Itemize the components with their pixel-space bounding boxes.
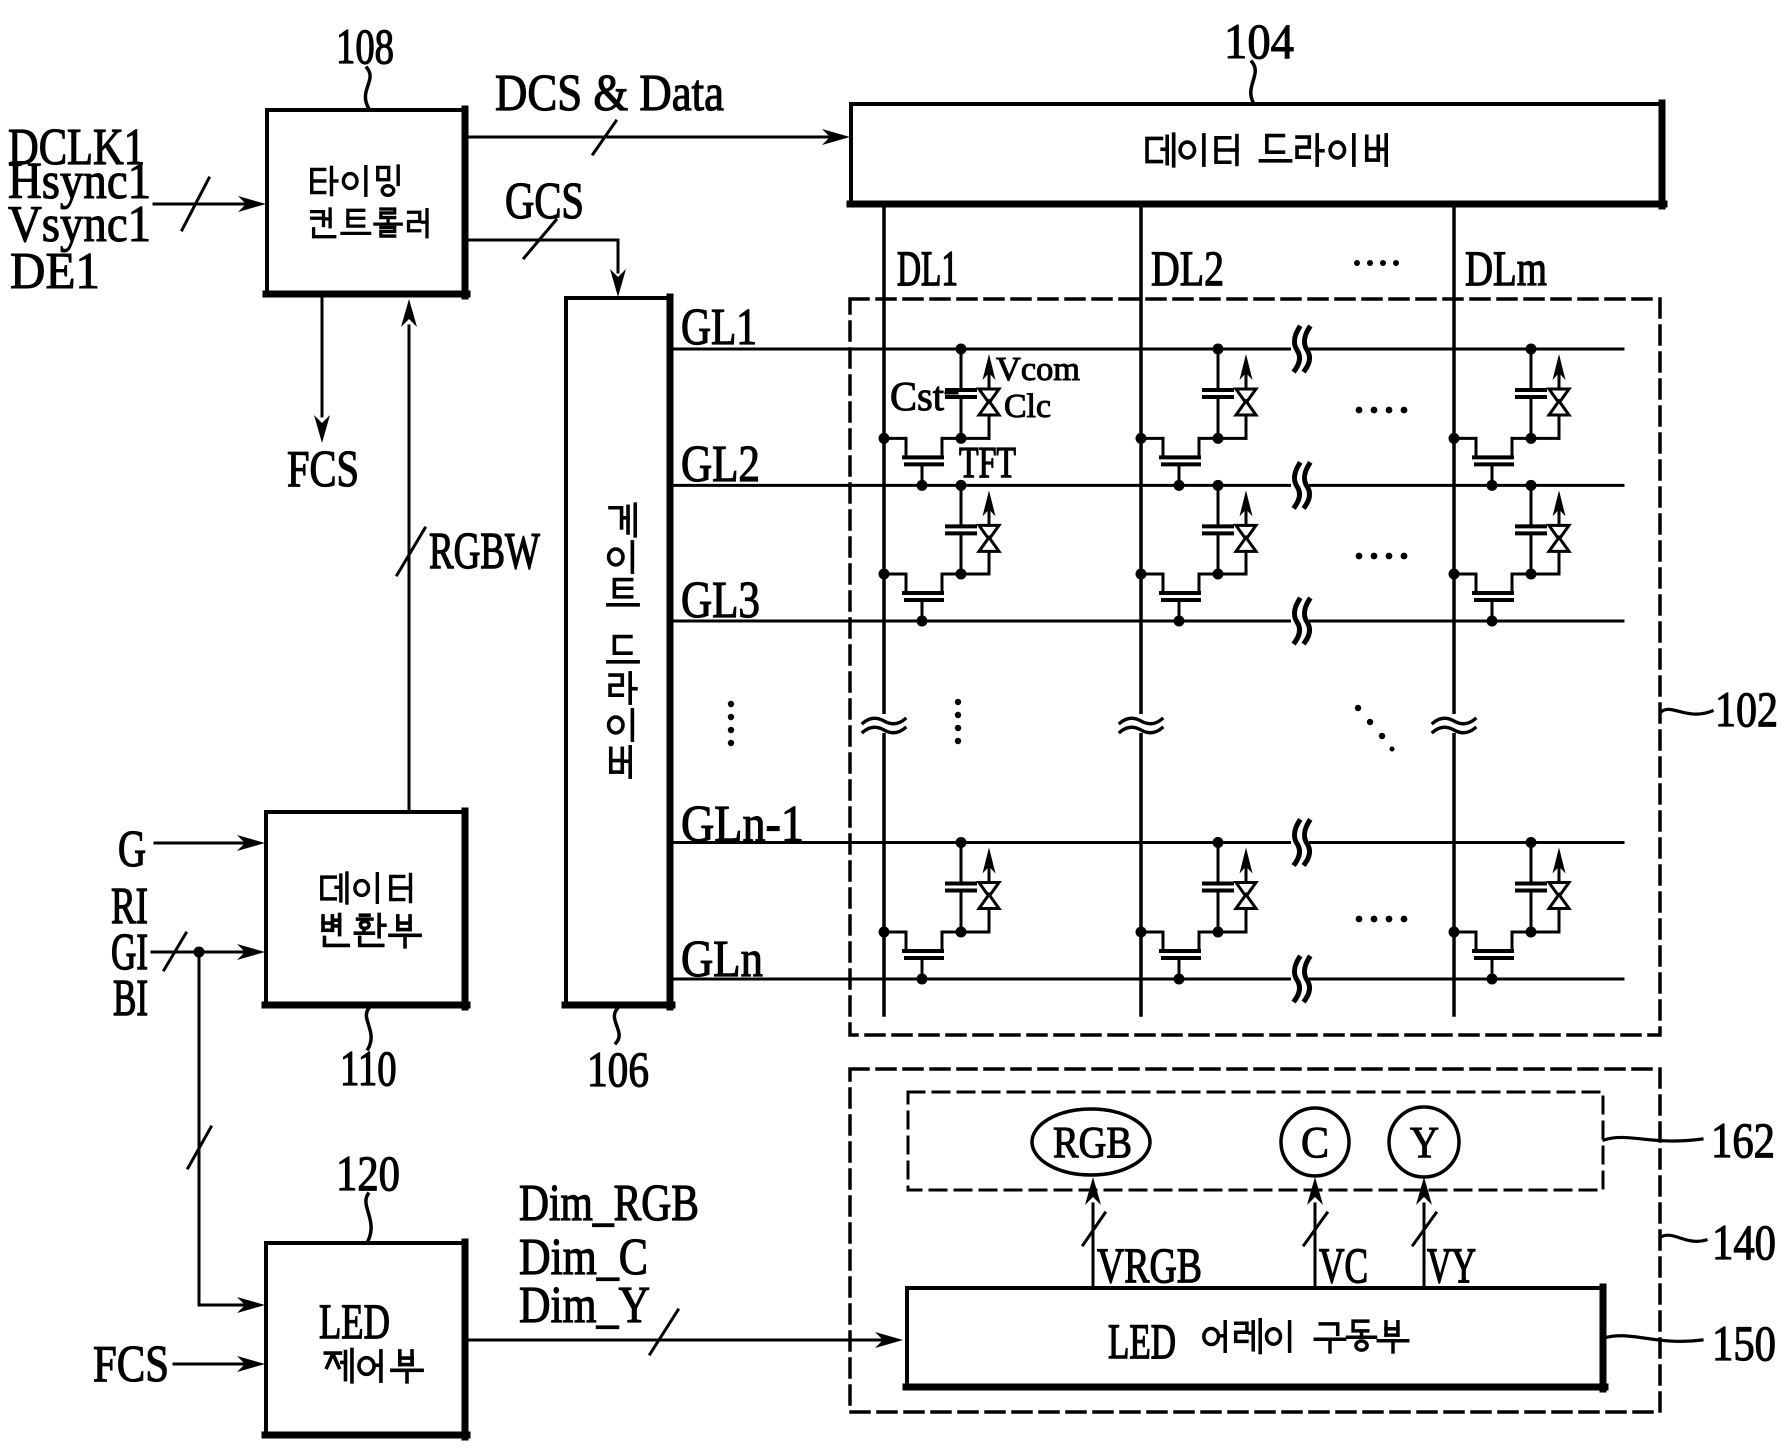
pixel TFT Q9	[1454, 932, 1531, 979]
TFT source junction on DL	[1449, 927, 1460, 938]
storage capacitor Cst8	[1204, 843, 1232, 933]
labels GL1 GL2 GL3 GLn-1 GLn	[681, 299, 804, 988]
TFT gate junction on GL	[917, 480, 928, 491]
Cst junction on gate line	[1213, 480, 1224, 491]
wire from GI node to LED controller	[188, 952, 265, 1313]
pixel node junction	[1213, 433, 1224, 444]
pixel TFT Q8	[1141, 932, 1218, 979]
pixel TFT Q4	[884, 574, 961, 621]
label 106	[587, 1041, 649, 1097]
label 104	[1224, 15, 1294, 70]
svg-text:GLn: GLn	[681, 931, 763, 988]
storage capacitor Cst4	[947, 485, 975, 574]
data driver U104 box	[850, 103, 1664, 206]
pixel TFT Q6	[1454, 574, 1531, 621]
label DCS & Data	[495, 64, 724, 122]
svg-text:GL3: GL3	[681, 571, 760, 629]
svg-text:Vcom: Vcom	[996, 351, 1080, 388]
TFT gate junction on GL	[1487, 616, 1498, 627]
label FCS	[287, 440, 359, 498]
data line DL2	[1139, 204, 1143, 1015]
svg-text:DL2: DL2	[1151, 241, 1224, 296]
LED array 162 dashed outline	[908, 1092, 1603, 1190]
label 162	[1711, 1114, 1775, 1169]
pixel TFT Q3	[1454, 438, 1531, 485]
svg-text:C: C	[1301, 1119, 1329, 1167]
leader squiggle to 162	[1604, 1137, 1702, 1141]
svg-text:RGB: RGB	[1053, 1118, 1132, 1167]
wire RGBW	[397, 299, 425, 812]
liquid crystal capacitor Clc1	[961, 389, 999, 438]
gate line GL2	[670, 484, 1623, 487]
wire GCS	[466, 220, 626, 297]
gate line GLn-1	[670, 841, 1623, 844]
wire input bus into timing controller	[154, 178, 266, 230]
storage capacitor Cst6	[1517, 485, 1545, 574]
gate line GL3	[670, 620, 1623, 623]
TFT gate junction on GL	[917, 616, 928, 627]
label 102	[1715, 682, 1778, 737]
leader squiggle to 140	[1661, 1235, 1706, 1241]
svg-text:GL2: GL2	[681, 435, 760, 493]
storage capacitor Cst7	[947, 843, 975, 933]
TFT gate junction on GL	[1487, 480, 1498, 491]
svg-text:FCS: FCS	[287, 440, 359, 498]
svg-text:VY: VY	[1427, 1239, 1476, 1294]
display panel 102 dashed outline	[850, 299, 1660, 1035]
label Vcom	[996, 351, 1080, 388]
svg-text:RGBW: RGBW	[429, 522, 540, 580]
label VRGB	[1097, 1238, 1202, 1293]
timing controller U108 box	[266, 109, 467, 296]
svg-text:VRGB: VRGB	[1097, 1238, 1202, 1293]
gate line break mark at y=349	[1291, 328, 1309, 370]
wire FCS into LED controller	[174, 1356, 265, 1372]
svg-text:102: 102	[1715, 682, 1778, 737]
svg-text:150: 150	[1712, 1317, 1776, 1372]
pixel node junction	[1526, 433, 1537, 444]
liquid crystal capacitor Clc9	[1531, 883, 1569, 933]
pixel TFT Q7	[884, 932, 961, 979]
gate line GL1	[670, 348, 1623, 351]
wire DCS & Data	[466, 121, 850, 154]
wire VC	[1304, 1177, 1327, 1288]
svg-text:LED: LED	[319, 1295, 390, 1350]
Cst junction on gate line	[1526, 837, 1537, 848]
liquid crystal capacitor Clc3	[1531, 389, 1569, 438]
Vcom terminal arrow	[1240, 490, 1253, 525]
svg-text:104: 104	[1224, 15, 1294, 70]
vertical ellipsis left of array	[728, 701, 734, 746]
TFT source junction on DL	[879, 569, 890, 580]
backlight unit 140 dashed outline	[850, 1069, 1660, 1412]
labels Dim_RGB Dim_C Dim_Y	[519, 1175, 699, 1334]
Cst junction on gate line	[1526, 344, 1537, 355]
horizontal ellipsis row 2	[1356, 553, 1408, 560]
data line break mark at x=884	[863, 714, 905, 733]
TFT source junction on DL	[1136, 433, 1147, 444]
labels DL1 DL2 DLm	[897, 240, 1547, 296]
liquid crystal capacitor Clc4	[961, 525, 999, 574]
data line DL1	[882, 204, 886, 1015]
data line DLm	[1452, 204, 1456, 1015]
leader squiggle to 108	[365, 68, 370, 107]
Y LED symbol	[1389, 1107, 1459, 1177]
Cst junction on gate line	[956, 344, 967, 355]
label TFT	[959, 439, 1016, 487]
svg-text:FCS: FCS	[93, 1336, 169, 1393]
horizontal ellipsis row 1	[1356, 407, 1408, 414]
Vcom terminal arrow	[983, 490, 996, 525]
label Clc	[1004, 388, 1051, 425]
Vcom terminal arrow	[983, 354, 996, 389]
leader squiggle to 120	[366, 1194, 371, 1241]
wire RI/GI/BI bus input	[152, 933, 265, 970]
storage capacitor Cst3	[1517, 349, 1545, 438]
svg-text:162: 162	[1711, 1114, 1775, 1169]
leader squiggle to 102	[1661, 709, 1712, 714]
input signal labels DCLK1 Hsync1 Vsync1 DE1	[8, 119, 151, 299]
Vcom terminal arrow	[1553, 490, 1566, 525]
labels RI GI BI	[111, 877, 148, 1027]
pixel node junction	[1526, 569, 1537, 580]
label VC	[1319, 1238, 1368, 1293]
gate line break mark at y=485.4	[1291, 464, 1309, 506]
horizontal ellipsis row n-1	[1356, 916, 1408, 923]
Cst junction on gate line	[956, 837, 967, 848]
TFT gate junction on GL	[917, 974, 928, 985]
vertical ellipsis in DL1 column	[955, 699, 961, 744]
wire VY	[1413, 1177, 1436, 1288]
TFT source junction on DL	[1449, 569, 1460, 580]
svg-text:G: G	[118, 820, 146, 878]
svg-text:106: 106	[587, 1041, 649, 1097]
TFT gate junction on GL	[1174, 616, 1185, 627]
Vcom terminal arrow	[1553, 354, 1566, 389]
liquid crystal capacitor Clc5	[1218, 525, 1256, 574]
gate driver U106 box	[565, 297, 672, 1007]
data line break mark at x=1141	[1120, 714, 1162, 733]
TFT gate junction on GL	[1174, 974, 1185, 985]
svg-text:DL1: DL1	[897, 241, 958, 296]
label 150	[1712, 1317, 1776, 1372]
pixel node junction	[956, 569, 967, 580]
svg-text:TFT: TFT	[959, 439, 1016, 487]
Vcom terminal arrow	[983, 848, 996, 883]
data converter U110 box	[265, 811, 467, 1007]
svg-text:GLn-1: GLn-1	[681, 794, 804, 852]
pixel node junction	[1526, 927, 1537, 938]
data line break mark at x=1454	[1433, 714, 1475, 733]
wire VRGB	[1083, 1177, 1105, 1288]
Cst junction on gate line	[956, 480, 967, 491]
storage capacitor Cst5	[1204, 485, 1232, 574]
label Cst	[890, 374, 957, 419]
leader squiggle to 150	[1604, 1336, 1702, 1342]
gate line break mark at y=979	[1291, 958, 1309, 1000]
svg-text:Dim_Y: Dim_Y	[519, 1277, 650, 1334]
label GCS	[505, 172, 584, 230]
storage capacitor Cst9	[1517, 843, 1545, 933]
dots between DL2 and DLm labels	[1354, 260, 1399, 266]
storage capacitor Cst1	[947, 349, 975, 438]
Cst junction on gate line	[1213, 837, 1224, 848]
RGB LED symbol	[1032, 1109, 1150, 1175]
TFT source junction on DL	[1449, 433, 1460, 444]
label 108	[336, 18, 394, 74]
gate line GLn	[670, 978, 1623, 981]
svg-text:DCS & Data: DCS & Data	[495, 64, 724, 122]
C LED symbol	[1281, 1108, 1349, 1176]
Cst junction on gate line	[1526, 480, 1537, 491]
svg-text:GCS: GCS	[505, 172, 584, 230]
svg-text:Dim_RGB: Dim_RGB	[519, 1175, 699, 1232]
leader squiggle to 110	[366, 1008, 371, 1049]
TFT gate junction on GL	[1487, 974, 1498, 985]
label FCS input	[93, 1336, 169, 1393]
svg-text:LED: LED	[1108, 1315, 1176, 1369]
TFT source junction on DL	[1136, 927, 1147, 938]
svg-text:DE1: DE1	[10, 242, 100, 300]
svg-text:BI: BI	[113, 969, 148, 1026]
storage capacitor Cst2	[1204, 349, 1232, 438]
Vcom terminal arrow	[1240, 848, 1253, 883]
wire G input	[155, 835, 265, 851]
liquid crystal capacitor Clc7	[961, 883, 999, 933]
pixel TFT Q2	[1141, 438, 1218, 485]
svg-text:Cst: Cst	[890, 374, 945, 419]
LED array driver U150 box	[906, 1287, 1605, 1389]
liquid crystal capacitor Clc8	[1218, 883, 1256, 933]
label 140	[1712, 1216, 1776, 1271]
label VY	[1427, 1239, 1476, 1294]
liquid crystal capacitor Clc2	[1218, 389, 1256, 438]
pixel TFT Q5	[1141, 574, 1218, 621]
pixel node junction	[1213, 927, 1224, 938]
junction node on GI bus	[194, 947, 205, 958]
wire FCS output	[314, 296, 330, 443]
pixel node junction	[1213, 569, 1224, 580]
label 110	[340, 1040, 397, 1096]
pixel node junction	[956, 433, 967, 444]
TFT source junction on DL	[879, 433, 890, 444]
svg-text:Y: Y	[1410, 1118, 1439, 1167]
svg-text:140: 140	[1712, 1216, 1776, 1271]
svg-text:VC: VC	[1319, 1238, 1368, 1293]
gate line break mark at y=842.5	[1291, 822, 1309, 864]
pixel node junction	[956, 927, 967, 938]
leader squiggle to 104	[1251, 62, 1255, 102]
LED controller U120 box	[265, 1242, 467, 1437]
TFT gate junction on GL	[1174, 480, 1185, 491]
liquid crystal capacitor Clc6	[1531, 525, 1569, 574]
gate line break mark at y=621	[1291, 600, 1309, 642]
wire Dim outputs to LED array driver	[466, 1310, 903, 1354]
label G	[118, 820, 146, 878]
diagonal ellipsis between DL2 and DLm	[1355, 705, 1395, 752]
label 120	[336, 1147, 400, 1202]
TFT source junction on DL	[879, 927, 890, 938]
pixel TFT Q1	[884, 438, 961, 485]
TFT source junction on DL	[1136, 569, 1147, 580]
Cst junction on gate line	[1213, 344, 1224, 355]
leader squiggle to 106	[614, 1009, 619, 1043]
svg-text:GL1: GL1	[681, 299, 757, 356]
svg-text:Clc: Clc	[1004, 388, 1051, 425]
Vcom terminal arrow	[1553, 848, 1566, 883]
svg-text:DLm: DLm	[1465, 240, 1547, 296]
label RGBW	[429, 522, 540, 580]
Vcom terminal arrow	[1240, 354, 1253, 389]
svg-text:108: 108	[336, 18, 394, 74]
